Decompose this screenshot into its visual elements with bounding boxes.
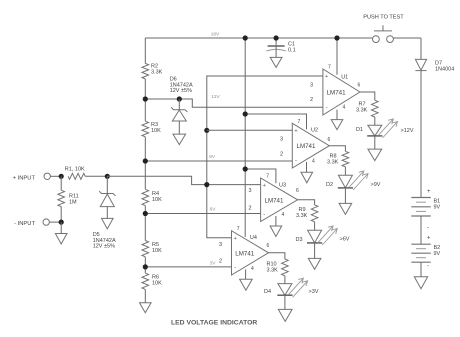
junction 18V bus U2 — [243, 111, 248, 116]
svg-text:U1: U1 — [341, 75, 348, 81]
svg-text:3: 3 — [249, 188, 252, 194]
svg-text:7: 7 — [266, 174, 269, 180]
wire input bus to U2 pin3 — [207, 129, 292, 131]
wire U2 output — [329, 146, 345, 152]
wire D4 to ground — [284, 295, 286, 309]
svg-text:2: 2 — [219, 259, 222, 265]
ground D1 — [368, 149, 382, 161]
junction input R11 — [59, 174, 64, 179]
svg-text:3.3K: 3.3K — [356, 108, 368, 114]
wire R1 to D5 node — [85, 175, 107, 177]
ground ladder — [140, 303, 152, 313]
svg-text:>3V: >3V — [309, 289, 319, 295]
junction input D5 — [105, 174, 110, 179]
wire D7 to battery — [420, 71, 422, 198]
svg-text:LM741: LM741 — [235, 250, 254, 257]
svg-text:-: - — [234, 265, 236, 271]
svg-text:>12V: >12V — [401, 128, 414, 134]
svg-text:4: 4 — [251, 266, 254, 272]
svg-text:0.1: 0.1 — [288, 48, 296, 54]
svg-text:6: 6 — [328, 137, 331, 143]
svg-text:10K: 10K — [151, 128, 161, 134]
battery B2 — [411, 244, 430, 262]
op-amp U1 — [323, 69, 360, 115]
ground D5 — [102, 218, 114, 229]
svg-text:2: 2 — [249, 206, 252, 212]
svg-text:9V: 9V — [434, 205, 441, 211]
wire terminal to R11 — [49, 221, 61, 223]
wire R10 to D4 — [284, 276, 286, 284]
wire C1 to rail — [275, 38, 277, 45]
wire 9V tap — [145, 160, 292, 162]
wire U1 pin7 — [336, 38, 338, 75]
svg-text:18V: 18V — [211, 31, 220, 37]
resistor R1 — [68, 173, 85, 179]
resistor R3 — [142, 121, 149, 137]
svg-text:12V ±5%: 12V ±5% — [170, 88, 192, 94]
svg-text:>6V: >6V — [340, 237, 350, 243]
wire D1 to ground — [374, 136, 376, 149]
terminal plus input — [44, 173, 50, 179]
svg-text:4: 4 — [312, 159, 315, 165]
svg-text:3.3K: 3.3K — [327, 159, 339, 165]
junction rail-C1 — [274, 35, 279, 40]
svg-text:D2: D2 — [326, 182, 333, 188]
svg-text:2: 2 — [310, 97, 313, 103]
resistor R8 — [342, 151, 349, 167]
svg-text:-: - — [295, 158, 297, 164]
battery B1 — [411, 198, 430, 217]
wire R2 to R3 — [144, 79, 146, 121]
diode D7 — [415, 59, 426, 70]
wire 3V tap — [145, 266, 231, 268]
svg-text:1N4004: 1N4004 — [435, 67, 454, 73]
wire terminal to R1 — [50, 175, 61, 177]
svg-text:1M: 1M — [69, 200, 77, 206]
wire R4 to R5 — [144, 206, 146, 241]
ground U4 — [240, 279, 253, 290]
wire U2 pin4 — [306, 162, 308, 172]
svg-text:+: + — [325, 74, 328, 80]
svg-text:-: - — [427, 264, 429, 270]
resistor R7 — [372, 100, 379, 117]
svg-text:10K: 10K — [152, 248, 162, 254]
svg-text:3: 3 — [280, 137, 283, 143]
svg-text:3.3K: 3.3K — [267, 268, 279, 274]
resistor R5 — [142, 241, 149, 257]
op-amp U4 — [232, 231, 269, 275]
svg-text:- INPUT: - INPUT — [14, 221, 35, 227]
svg-text:7: 7 — [328, 65, 331, 71]
wire 18V rail — [145, 37, 372, 39]
wire R3 to R4 — [144, 137, 146, 190]
LED D1 arrows — [378, 119, 397, 138]
svg-text:U3: U3 — [279, 183, 286, 189]
svg-text:+: + — [234, 236, 237, 242]
svg-text:U4: U4 — [250, 235, 257, 241]
wire B2 to ground — [420, 262, 422, 277]
svg-text:D1: D1 — [356, 127, 363, 133]
wire U1 pin4 — [336, 110, 338, 120]
wire input bus vertical — [207, 76, 323, 238]
wire U4 pin4 — [245, 269, 247, 279]
svg-text:-: - — [427, 225, 429, 231]
resistor R4 — [142, 189, 149, 205]
svg-text:12V ±5%: 12V ±5% — [93, 244, 115, 250]
wire switch to right rail — [393, 37, 421, 39]
LED D4 — [277, 284, 292, 296]
resistor R9 — [311, 205, 318, 222]
svg-text:9V: 9V — [434, 251, 441, 257]
junction 18V bus U3 — [243, 166, 248, 171]
capacitor C1 — [266, 46, 285, 57]
ground C1 — [270, 57, 282, 67]
svg-text:3: 3 — [219, 242, 222, 248]
svg-text:D4: D4 — [264, 289, 271, 295]
svg-text:3.3K: 3.3K — [151, 70, 163, 76]
svg-text:6: 6 — [267, 243, 270, 249]
svg-text:-: - — [263, 212, 265, 218]
wire R5 to R6 — [144, 257, 146, 273]
wire D5 lead — [106, 176, 108, 193]
svg-text:10K: 10K — [152, 197, 162, 203]
terminal minus input — [43, 219, 49, 225]
op-amp U2 — [292, 123, 329, 168]
svg-text:4: 4 — [282, 212, 285, 218]
LED D3 arrows — [318, 226, 337, 245]
svg-text:LED VOLTAGE INDICATOR: LED VOLTAGE INDICATOR — [171, 319, 257, 326]
svg-text:10K: 10K — [152, 281, 162, 287]
svg-text:PUSH TO TEST: PUSH TO TEST — [363, 15, 404, 21]
wire D2 to ground — [344, 188, 346, 204]
wire 18V bus to U2 pin7 — [245, 114, 306, 129]
ground D6 — [173, 134, 186, 145]
ground U1 — [331, 120, 343, 130]
LED D4 arrows — [288, 278, 307, 297]
LED D2 arrows — [349, 171, 368, 190]
svg-text:>9V: >9V — [371, 182, 381, 188]
junction ladder 12V — [143, 96, 148, 101]
junction input bus U2 — [204, 128, 209, 133]
switch S1 push-to-test — [373, 25, 394, 42]
svg-text:+: + — [427, 236, 431, 242]
junction input bus U3 — [204, 182, 209, 187]
ground minus input — [55, 234, 67, 245]
wire U3 pin4 — [275, 216, 277, 226]
wire ladder top — [144, 38, 146, 63]
ground D4 — [278, 309, 292, 321]
ground D2 — [339, 203, 352, 214]
wire D6 lead — [178, 99, 180, 110]
svg-text:LM741: LM741 — [327, 89, 346, 96]
svg-text:U2: U2 — [311, 128, 318, 134]
ground D3 — [308, 258, 321, 269]
wire 12V to U1 pin2 — [179, 99, 323, 107]
wire right rail top — [420, 38, 422, 59]
wire 18V bus vertical — [244, 38, 246, 237]
wire R9 to D3 — [314, 222, 316, 230]
svg-text:6: 6 — [296, 188, 299, 194]
wire 6V tap — [145, 213, 260, 215]
svg-text:D3: D3 — [296, 237, 303, 243]
LED D2 — [338, 175, 353, 188]
ground U3 — [270, 226, 282, 237]
junction ladder 3V — [143, 264, 148, 269]
wire minus input to ground — [60, 222, 62, 233]
wire R8 to D2 — [344, 167, 346, 175]
wire B1 to B2 — [420, 216, 422, 244]
svg-text:7: 7 — [237, 226, 240, 232]
wire R7 to D1 — [374, 117, 376, 125]
svg-text:4: 4 — [343, 105, 346, 111]
resistor R10 — [282, 259, 289, 276]
junction rail 18V bus — [243, 35, 248, 40]
LED D1 — [367, 125, 382, 136]
svg-text:+ INPUT: + INPUT — [13, 175, 36, 181]
wire 18V bus to U3 pin7 — [245, 169, 276, 183]
junction ladder 9V — [143, 158, 148, 163]
resistor R6 — [142, 273, 149, 289]
svg-text:-: - — [326, 105, 328, 111]
wire U3 output — [298, 200, 315, 205]
junction 12V D6 — [177, 96, 182, 101]
wire 12V tap — [145, 98, 179, 100]
svg-text:2: 2 — [280, 151, 283, 157]
svg-text:6: 6 — [358, 82, 361, 88]
resistor R2 — [142, 63, 149, 79]
svg-text:LM741: LM741 — [265, 197, 284, 204]
op-amp U3 — [261, 178, 298, 222]
LED D3 — [307, 230, 322, 243]
wire U4 output — [269, 253, 285, 259]
ground battery — [414, 277, 427, 289]
wire R6 to ground — [144, 289, 146, 302]
resistor R11 — [58, 176, 65, 222]
svg-text:+: + — [427, 189, 431, 195]
svg-text:3.3K: 3.3K — [296, 213, 308, 219]
svg-text:9V: 9V — [209, 154, 216, 160]
svg-text:3: 3 — [310, 82, 313, 88]
ground U2 — [301, 172, 313, 183]
junction ladder 6V — [143, 211, 148, 216]
wire U1 output — [360, 92, 375, 100]
svg-text:+: + — [263, 183, 266, 189]
svg-text:12V: 12V — [211, 94, 220, 100]
svg-text:LM741: LM741 — [297, 143, 316, 150]
wire D3 to ground — [314, 243, 316, 259]
svg-text:+: + — [294, 129, 297, 135]
svg-text:R1, 10K: R1, 10K — [65, 167, 85, 173]
junction rail U1 pin7 — [334, 35, 339, 40]
zener diode D6 — [171, 107, 187, 134]
svg-text:3V: 3V — [210, 261, 217, 267]
svg-text:6V: 6V — [210, 207, 217, 213]
svg-text:7: 7 — [298, 119, 301, 125]
wire input to U3 pin3 — [107, 176, 260, 184]
junction minus input — [59, 220, 64, 225]
zener diode D5 — [99, 191, 115, 218]
